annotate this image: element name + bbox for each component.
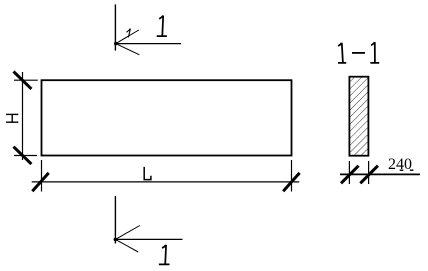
dimension L: oblique tick left: [32, 173, 48, 191]
dimension 240: dimension line: [340, 173, 420, 175]
section view label 1-1: [338, 42, 379, 63]
beam outline rectangle (front view): [42, 80, 292, 155]
dimension H: dimension line: [22, 72, 24, 160]
dimension H: oblique tick bottom: [14, 147, 32, 164]
dimension L: label L: [144, 167, 151, 180]
section marker bottom: label 1: [159, 245, 170, 265]
dimension L: extension line left: [41, 160, 43, 192]
dimension 240: value label: [388, 156, 413, 173]
dimension L: oblique tick right: [283, 173, 299, 191]
dimension H: label H (rotated): [6, 114, 18, 122]
dimension 240: extension line right: [368, 161, 370, 184]
section view: hatched rectangle: [349, 77, 368, 156]
dimension 240: extension line left: [348, 161, 350, 184]
section marker bottom: cutting line: [114, 196, 116, 244]
section marker top: small label 1: [126, 29, 130, 38]
section marker top: cutting line: [114, 4, 116, 50]
section marker bottom: arrow: [114, 226, 183, 253]
dimension H: extension line bottom: [14, 155, 37, 157]
dimension H: oblique tick top: [14, 72, 32, 89]
dimension 240: oblique tick left: [341, 166, 359, 184]
dimension L: extension line right: [291, 160, 293, 192]
dimension L: dimension line: [32, 181, 300, 183]
section marker top: label 1: [157, 16, 167, 37]
section marker top: arrow: [114, 30, 181, 55]
dimension 240: oblique tick right: [360, 166, 378, 184]
dimension H: extension line top: [14, 79, 38, 81]
